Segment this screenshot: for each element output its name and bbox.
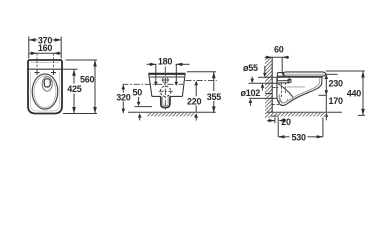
- svg-text:530: 530: [291, 133, 306, 143]
- svg-text:560: 560: [80, 75, 95, 85]
- svg-text:20: 20: [281, 117, 291, 127]
- svg-text:170: 170: [329, 96, 344, 106]
- svg-text:50: 50: [133, 87, 143, 97]
- svg-text:440: 440: [347, 89, 362, 99]
- svg-text:60: 60: [274, 45, 284, 55]
- svg-text:425: 425: [67, 84, 82, 94]
- svg-text:160: 160: [38, 43, 53, 53]
- svg-text:230: 230: [329, 78, 344, 88]
- svg-text:320: 320: [116, 93, 131, 103]
- svg-text:180: 180: [158, 57, 173, 67]
- svg-text:220: 220: [187, 97, 202, 107]
- svg-text:ø55: ø55: [243, 63, 258, 73]
- svg-text:ø102: ø102: [241, 88, 261, 98]
- svg-text:355: 355: [207, 92, 222, 102]
